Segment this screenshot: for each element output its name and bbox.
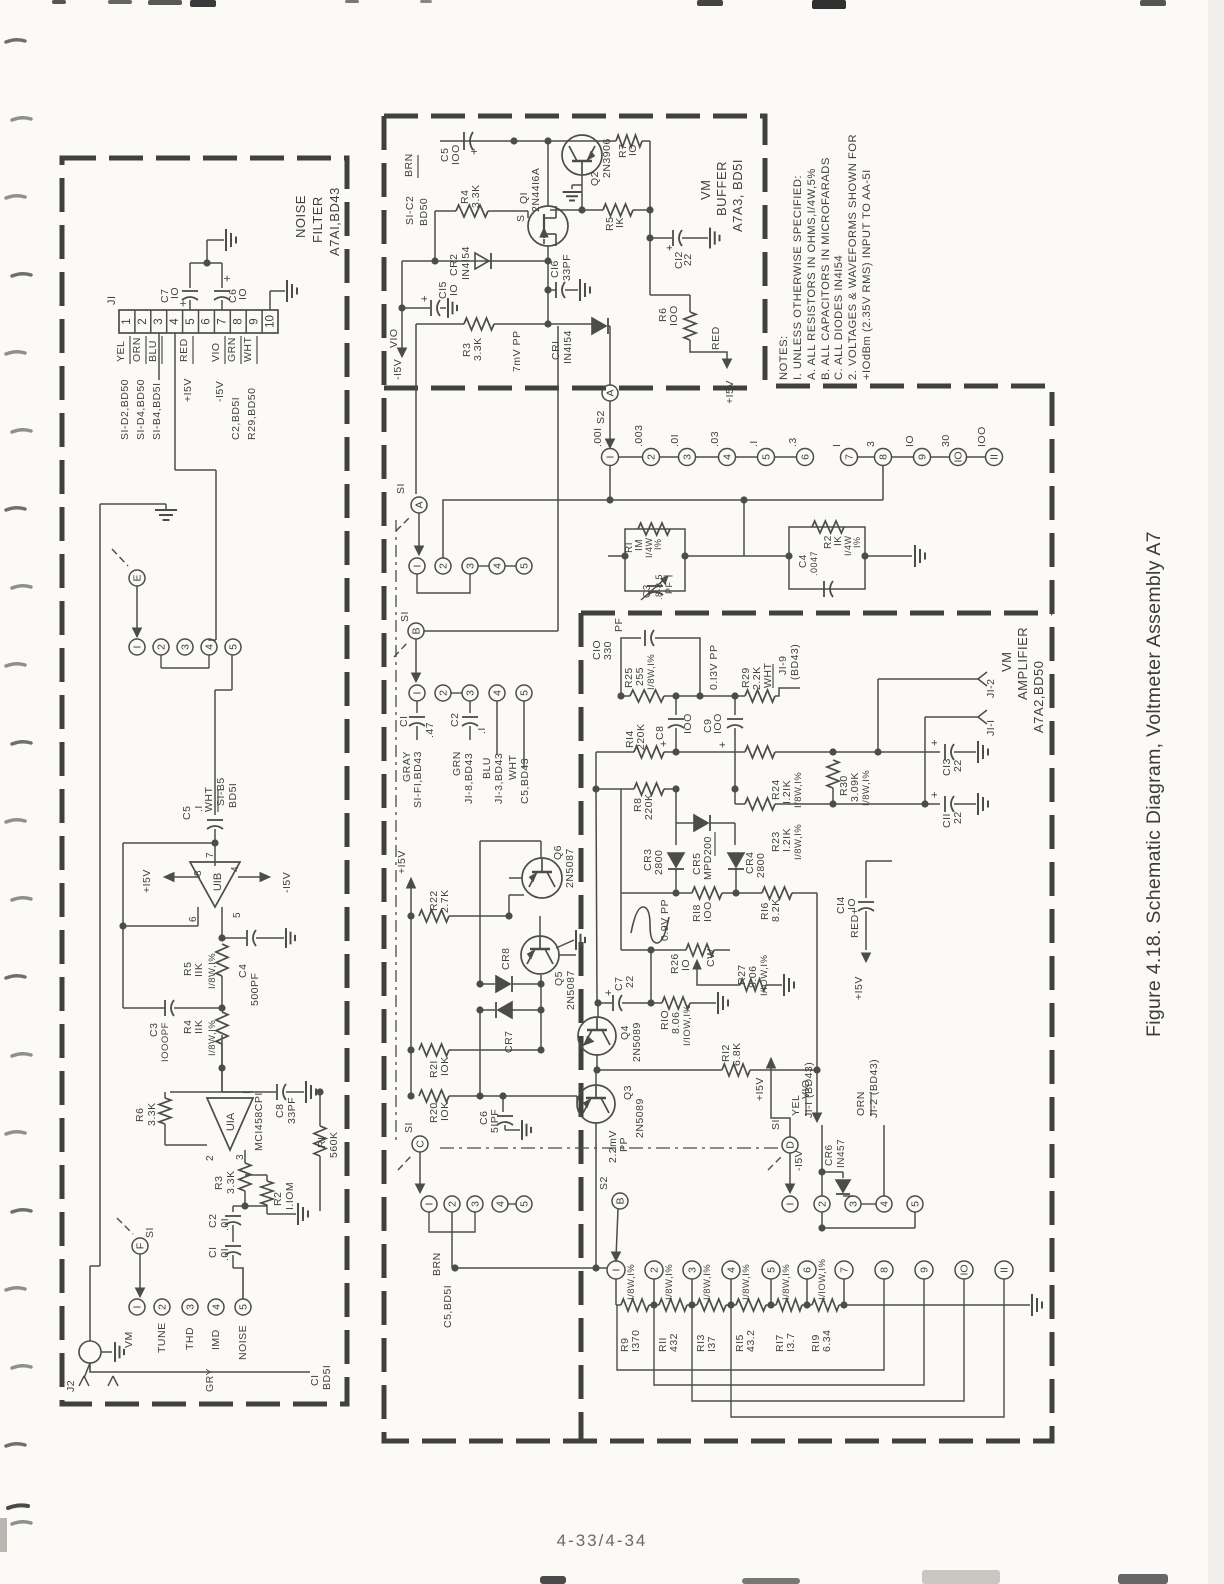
svg-text:IOK: IOK	[439, 1056, 451, 1076]
svg-text:+IOdBm (2.35V RMS) INPUT TO: +IOdBm (2.35V RMS) INPUT TO AA-5I	[861, 169, 873, 380]
svg-text:TUNE: TUNE	[156, 1322, 168, 1353]
svg-text:+: +	[664, 244, 676, 251]
svg-text:8: 8	[879, 1267, 891, 1273]
svg-text:I. UNLESS OTHERWISE SPECIFIED:: I. UNLESS OTHERWISE SPECIFIED:	[792, 175, 804, 380]
svg-text:3: 3	[848, 1201, 860, 1207]
svg-text:+I5V: +I5V	[754, 1077, 766, 1101]
svg-text:0.I3V PP: 0.I3V PP	[708, 645, 720, 690]
svg-text:8: 8	[193, 870, 204, 876]
svg-text:4: 4	[169, 318, 181, 325]
svg-text:2: 2	[157, 1304, 169, 1310]
svg-text:I: I	[132, 1306, 144, 1309]
svg-text:22: 22	[952, 811, 964, 824]
svg-text:I/8W,I%: I/8W,I%	[664, 1264, 675, 1300]
svg-text:AMPLIFIER: AMPLIFIER	[1015, 627, 1030, 700]
svg-text:F: F	[135, 1243, 147, 1249]
svg-text:IO: IO	[904, 435, 916, 447]
svg-text:5: 5	[519, 563, 531, 569]
svg-text:JI-I (BD43): JI-I (BD43)	[803, 1062, 815, 1118]
svg-text:I/IOW,I%: I/IOW,I%	[682, 1004, 693, 1046]
svg-text:C. ALL DIODES IN4I54: C. ALL DIODES IN4I54	[833, 255, 845, 380]
svg-text:500PF: 500PF	[249, 973, 261, 1006]
svg-text:IN4I54: IN4I54	[460, 246, 472, 280]
svg-text:I: I	[412, 692, 424, 695]
svg-text:JI-8,BD43: JI-8,BD43	[463, 753, 475, 804]
svg-text:+: +	[419, 295, 431, 302]
svg-text:THD: THD	[184, 1327, 196, 1350]
svg-text:I/8W,I%: I/8W,I%	[861, 770, 872, 806]
svg-text:6: 6	[800, 454, 812, 460]
svg-text:IIK: IIK	[193, 963, 205, 977]
svg-text:2N5087: 2N5087	[564, 848, 576, 888]
svg-text:B: B	[411, 627, 423, 634]
svg-text:WHT: WHT	[203, 787, 215, 812]
svg-text:4: 4	[492, 690, 504, 696]
svg-text:CI: CI	[309, 1375, 321, 1387]
svg-text:C3: C3	[148, 1023, 160, 1037]
svg-text:3: 3	[682, 454, 694, 460]
svg-text:6: 6	[802, 1267, 814, 1273]
svg-text:5: 5	[519, 1201, 531, 1207]
svg-text:UIB: UIB	[212, 873, 224, 891]
svg-text:+: +	[176, 299, 190, 307]
svg-text:.I: .I	[748, 440, 760, 447]
svg-text:RED+: RED+	[849, 908, 861, 938]
svg-text:0.9V PP: 0.9V PP	[659, 899, 671, 941]
svg-text:ORN: ORN	[855, 1091, 867, 1116]
svg-text:9: 9	[248, 318, 260, 324]
svg-text:IIK: IIK	[193, 1020, 205, 1034]
svg-text:5: 5	[910, 1201, 922, 1207]
svg-text:JI-2: JI-2	[985, 678, 997, 698]
svg-text:I3.7: I3.7	[785, 1332, 797, 1352]
svg-text:.8-8.5: .8-8.5	[654, 574, 664, 600]
svg-text:2: 2	[438, 563, 450, 569]
svg-text:I/8W,I%: I/8W,I%	[702, 1264, 713, 1300]
svg-text:+I5V: +I5V	[724, 380, 736, 404]
svg-text:1: 1	[121, 318, 133, 324]
svg-text:-I5V: -I5V	[281, 872, 293, 893]
svg-text:BUFFER: BUFFER	[714, 161, 729, 216]
svg-text:2: 2	[137, 318, 149, 324]
svg-text:FILTER: FILTER	[310, 196, 325, 243]
svg-text:A: A	[605, 389, 617, 396]
svg-text:J2: J2	[65, 1380, 77, 1392]
svg-text:560K: 560K	[328, 1131, 340, 1158]
svg-text:I/8W,I%: I/8W,I%	[741, 1264, 752, 1300]
svg-text:I/8W,I%: I/8W,I%	[793, 772, 804, 808]
svg-text:+: +	[467, 147, 481, 155]
svg-text:SI: SI	[399, 611, 411, 622]
svg-text:NOTES:: NOTES:	[778, 335, 790, 380]
svg-text:+: +	[929, 739, 941, 746]
svg-text:I: I	[785, 1203, 797, 1206]
svg-text:IMD: IMD	[210, 1329, 222, 1350]
svg-text:Q5: Q5	[553, 971, 565, 986]
svg-text:SI: SI	[144, 1227, 156, 1238]
svg-text:VIO: VIO	[388, 328, 400, 348]
svg-text:A7AI,BD43: A7AI,BD43	[327, 187, 342, 256]
svg-text:C4: C4	[237, 964, 249, 978]
svg-text:I/8W,I%: I/8W,I%	[207, 1020, 218, 1056]
svg-text:2N3906: 2N3906	[601, 138, 613, 178]
svg-text:I%: I%	[852, 536, 862, 548]
svg-text:I370: I370	[630, 1330, 642, 1352]
svg-text:SI: SI	[403, 1122, 415, 1133]
svg-text:MPD200: MPD200	[702, 836, 714, 880]
svg-text:II: II	[989, 454, 1001, 460]
svg-text:Q3: Q3	[622, 1085, 634, 1100]
svg-text:I/IOW,I%: I/IOW,I%	[817, 1258, 828, 1300]
svg-text:6: 6	[201, 318, 213, 324]
svg-text:4: 4	[204, 644, 216, 650]
svg-text:WHT: WHT	[242, 337, 254, 362]
svg-text:Figure 4.18. Schematic Diagra: Figure 4.18. Schematic Diagram, Voltmete…	[1143, 531, 1165, 1037]
svg-text:CI6: CI6	[549, 260, 561, 278]
svg-text:2N44I6A: 2N44I6A	[530, 168, 542, 212]
svg-text:5: 5	[761, 454, 773, 460]
svg-text:.0I: .0I	[219, 1248, 231, 1261]
svg-text:VM: VM	[698, 180, 713, 201]
svg-text:IO: IO	[448, 284, 460, 296]
svg-text:4: 4	[492, 563, 504, 569]
svg-text:IOO: IOO	[976, 426, 988, 447]
svg-text:IO: IO	[237, 288, 249, 300]
svg-text:I37: I37	[706, 1336, 718, 1352]
svg-text:BRN: BRN	[431, 1252, 443, 1276]
svg-text:R6: R6	[134, 1108, 146, 1122]
svg-text:C3: C3	[642, 584, 653, 598]
svg-text:IO: IO	[680, 959, 692, 971]
svg-text:IOO: IOO	[702, 901, 714, 922]
svg-text:SI: SI	[770, 1119, 782, 1130]
svg-text:A. ALL RESISTORS IN OHMS,I/: A. ALL RESISTORS IN OHMS,I/4W,5%	[806, 168, 818, 380]
svg-text:CRI: CRI	[550, 340, 562, 360]
svg-text:IOOOPF: IOOOPF	[160, 1022, 171, 1062]
svg-text:10: 10	[264, 315, 276, 328]
svg-text:+: +	[220, 274, 234, 282]
svg-text:WHT: WHT	[507, 755, 519, 780]
svg-text:330: 330	[602, 641, 614, 660]
svg-text:3.3K: 3.3K	[225, 1170, 237, 1194]
svg-text:RED: RED	[710, 326, 722, 350]
svg-text:3: 3	[687, 1267, 699, 1273]
svg-text:3: 3	[185, 1304, 197, 1310]
svg-text:22: 22	[952, 759, 964, 772]
svg-text:SI-C2: SI-C2	[404, 196, 416, 225]
svg-text:3.3K: 3.3K	[472, 337, 484, 361]
svg-text:SI-FI,BD43: SI-FI,BD43	[412, 751, 424, 808]
svg-text:Q4: Q4	[619, 1025, 631, 1040]
svg-text:RED: RED	[178, 338, 190, 362]
svg-text:I: I	[132, 646, 144, 649]
svg-text:C: C	[415, 1140, 427, 1148]
svg-text:5IPF: 5IPF	[489, 1109, 501, 1133]
svg-text:I.2IK: I.2IK	[781, 780, 793, 804]
svg-text:JI-3,BD43: JI-3,BD43	[493, 753, 505, 804]
svg-text:I.2IK: I.2IK	[781, 828, 793, 852]
svg-text:BD5I: BD5I	[321, 1365, 333, 1390]
svg-text:JI: JI	[106, 295, 118, 305]
svg-text:BLU: BLU	[481, 757, 493, 779]
svg-text:GRN: GRN	[451, 751, 463, 776]
svg-text:4: 4	[722, 454, 734, 460]
svg-text:YEL: YEL	[115, 341, 127, 362]
svg-text:2: 2	[438, 690, 450, 696]
svg-text:33PF: 33PF	[561, 254, 573, 281]
svg-text:C8: C8	[654, 726, 666, 740]
svg-text:JI-2 (BD43): JI-2 (BD43)	[868, 1059, 880, 1118]
svg-text:Q6: Q6	[552, 845, 564, 860]
svg-text:4: 4	[726, 1267, 738, 1273]
svg-text:IOO: IOO	[712, 713, 724, 734]
svg-text:GRY: GRY	[204, 1368, 216, 1392]
svg-text:I: I	[605, 456, 617, 459]
svg-text:R29,BD50: R29,BD50	[246, 388, 258, 440]
svg-text:PP: PP	[618, 1137, 630, 1152]
svg-text:4: 4	[879, 1201, 891, 1207]
svg-text:VIO: VIO	[210, 342, 222, 362]
svg-text:7: 7	[839, 1267, 851, 1273]
svg-text:VM: VM	[999, 652, 1014, 673]
svg-text:E: E	[132, 574, 144, 581]
svg-text:IN457: IN457	[836, 1139, 847, 1168]
svg-text:IOO: IOO	[668, 305, 680, 326]
svg-text:6.34: 6.34	[821, 1330, 833, 1352]
svg-text:22: 22	[624, 975, 636, 988]
svg-text:9: 9	[919, 1267, 931, 1273]
svg-text:2800: 2800	[755, 853, 767, 878]
svg-text:7: 7	[205, 852, 216, 858]
svg-text:.03: .03	[709, 431, 721, 447]
svg-text:-I5V: -I5V	[392, 359, 404, 380]
svg-text:C5: C5	[181, 806, 193, 820]
svg-text:(BD43): (BD43)	[789, 644, 801, 680]
svg-text:3: 3	[465, 690, 477, 696]
svg-text:Q2: Q2	[589, 171, 601, 186]
svg-text:R3: R3	[213, 1176, 225, 1190]
svg-text:2800: 2800	[653, 850, 665, 875]
svg-text:I/8W,I%: I/8W,I%	[646, 654, 657, 690]
svg-text:B. ALL CAPACITORS IN MICROF: B. ALL CAPACITORS IN MICROFARADS	[820, 157, 832, 380]
svg-text:IOO: IOO	[450, 144, 462, 165]
svg-text:S2: S2	[595, 410, 607, 424]
svg-text:I/8W,I%: I/8W,I%	[793, 824, 804, 860]
svg-text:C8: C8	[274, 1104, 286, 1118]
svg-text:SI-B4,BD5I: SI-B4,BD5I	[151, 382, 163, 440]
svg-text:C5,BD5I: C5,BD5I	[442, 1285, 454, 1328]
svg-text:+I5V: +I5V	[396, 850, 408, 874]
svg-text:I%: I%	[653, 538, 663, 550]
svg-text:+: +	[929, 791, 941, 798]
svg-text:3.3K: 3.3K	[146, 1102, 158, 1126]
svg-text:ORN: ORN	[131, 337, 143, 362]
svg-text:II: II	[999, 1267, 1011, 1273]
svg-text:3: 3	[470, 1201, 482, 1207]
svg-text:6.8K: 6.8K	[731, 1042, 743, 1066]
svg-text:.I: .I	[476, 727, 488, 734]
svg-text:QI: QI	[518, 192, 530, 204]
svg-text:IO: IO	[953, 451, 965, 462]
svg-text:S2: S2	[598, 1176, 610, 1190]
svg-text:+: +	[717, 741, 729, 748]
svg-text:+I5V: +I5V	[182, 378, 194, 402]
svg-text:.0I: .0I	[669, 434, 681, 447]
svg-text:5: 5	[238, 1304, 250, 1310]
svg-text:VM: VM	[123, 1331, 135, 1348]
svg-text:C2: C2	[207, 1214, 219, 1228]
svg-text:I: I	[412, 565, 424, 568]
svg-text:IOO: IOO	[682, 713, 694, 734]
svg-text:+I5V: +I5V	[141, 869, 153, 893]
svg-text:+I5V: +I5V	[853, 976, 865, 1000]
svg-text:IO: IO	[169, 287, 181, 299]
svg-text:.47: .47	[424, 722, 436, 738]
svg-text:8.2K: 8.2K	[770, 898, 782, 922]
svg-text:I/8W,I%: I/8W,I%	[626, 1264, 637, 1300]
svg-text:3.09K: 3.09K	[849, 772, 861, 802]
svg-text:I/8W,I%: I/8W,I%	[207, 953, 218, 989]
svg-text:2: 2	[156, 644, 168, 650]
svg-text:SI: SI	[395, 483, 407, 494]
svg-text:2. VOLTAGES & WAVEFORMS SHO: 2. VOLTAGES & WAVEFORMS SHOWN FOR	[847, 134, 859, 380]
svg-text:NOISE: NOISE	[293, 195, 308, 238]
svg-text:43.2: 43.2	[745, 1330, 757, 1352]
svg-text:220K: 220K	[643, 793, 655, 820]
svg-text:RI: RI	[316, 1137, 328, 1149]
svg-text:CR8: CR8	[500, 947, 512, 970]
svg-text:S: S	[515, 214, 527, 222]
svg-text:JI-I: JI-I	[985, 719, 997, 736]
svg-text:33PF: 33PF	[286, 1097, 298, 1124]
svg-text:7mV PP: 7mV PP	[511, 330, 523, 372]
svg-text:BRN: BRN	[403, 153, 415, 177]
svg-text:I: I	[424, 1203, 436, 1206]
svg-text:5: 5	[228, 644, 240, 650]
svg-text:BD50: BD50	[418, 198, 430, 226]
svg-text:CI: CI	[398, 716, 410, 728]
svg-text:9: 9	[917, 454, 929, 460]
svg-text:CR2: CR2	[448, 253, 460, 276]
svg-text:.3: .3	[787, 437, 799, 447]
svg-text:22: 22	[682, 253, 694, 266]
svg-text:CR6: CR6	[824, 1144, 835, 1166]
svg-text:8: 8	[878, 454, 890, 460]
svg-text:C4: C4	[798, 554, 809, 568]
svg-text:WHT: WHT	[762, 663, 774, 688]
svg-text:IK: IK	[614, 217, 626, 228]
svg-text:7: 7	[217, 318, 229, 324]
svg-text:4: 4	[230, 866, 241, 872]
svg-text:2N5087: 2N5087	[565, 970, 577, 1010]
svg-text:.00I: .00I	[592, 427, 604, 447]
svg-text:A7A3, BD5I: A7A3, BD5I	[730, 159, 745, 232]
svg-text:IO: IO	[627, 144, 639, 156]
svg-text:SI-B5: SI-B5	[215, 777, 227, 806]
svg-text:B: B	[615, 1197, 627, 1204]
svg-text:IOK: IOK	[439, 1101, 451, 1121]
svg-text:UIA: UIA	[225, 1112, 237, 1131]
svg-text:4: 4	[211, 1304, 223, 1310]
svg-text:CI: CI	[207, 1247, 219, 1259]
svg-text:2: 2	[817, 1201, 829, 1207]
svg-text:2: 2	[646, 454, 658, 460]
svg-text:D: D	[785, 1141, 797, 1149]
svg-text:I.IOM: I.IOM	[284, 1182, 296, 1210]
svg-text:A: A	[414, 501, 426, 508]
svg-text:-I5V: -I5V	[214, 381, 226, 402]
svg-text:2: 2	[447, 1201, 459, 1207]
svg-text:PF: PF	[613, 618, 625, 632]
svg-text:2N5089: 2N5089	[631, 1022, 643, 1062]
svg-text:432: 432	[668, 1333, 680, 1352]
svg-text:GRN: GRN	[226, 337, 238, 362]
svg-text:I: I	[611, 1269, 623, 1272]
svg-text:3: 3	[153, 318, 165, 324]
svg-text:5: 5	[185, 318, 197, 324]
svg-text:8: 8	[233, 318, 245, 324]
svg-text:255: 255	[634, 667, 646, 686]
svg-text:BD5I: BD5I	[227, 783, 239, 808]
svg-text:3: 3	[180, 644, 192, 650]
svg-text:-I5V: -I5V	[793, 1150, 805, 1171]
svg-text:.003: .003	[633, 425, 645, 447]
svg-text:5: 5	[232, 912, 243, 918]
svg-text:8.06: 8.06	[670, 1012, 682, 1034]
svg-text:5: 5	[519, 690, 531, 696]
svg-text:R2: R2	[272, 1192, 284, 1206]
svg-text:220K: 220K	[635, 723, 647, 750]
svg-text:.0I: .0I	[219, 1218, 231, 1231]
svg-text:C5,BD43: C5,BD43	[519, 758, 531, 804]
svg-text:PF: PF	[664, 581, 674, 594]
svg-text:5: 5	[766, 1267, 778, 1273]
svg-text:I: I	[831, 444, 843, 447]
svg-text:IN4I54: IN4I54	[562, 330, 574, 364]
svg-text:JI-9: JI-9	[777, 655, 789, 675]
svg-text:MCI458CPI: MCI458CPI	[253, 1092, 265, 1151]
svg-text:3.3K: 3.3K	[470, 184, 482, 208]
svg-text:CW: CW	[705, 949, 717, 968]
svg-text:C2,BD5I: C2,BD5I	[230, 397, 242, 440]
svg-text:+: +	[658, 740, 670, 747]
svg-text:C2: C2	[449, 713, 461, 727]
svg-text:SI-D4,BD50: SI-D4,BD50	[135, 379, 147, 440]
svg-text:.0047: .0047	[809, 551, 819, 576]
svg-text:NOISE: NOISE	[237, 1325, 249, 1360]
svg-text:BLU: BLU	[147, 340, 159, 362]
svg-text:4: 4	[495, 1201, 507, 1207]
svg-text:2: 2	[649, 1267, 661, 1273]
svg-text:3: 3	[865, 441, 877, 447]
svg-text:30: 30	[940, 434, 952, 447]
svg-text:YEL: YEL	[790, 1095, 802, 1116]
svg-text:4-33/4-34: 4-33/4-34	[557, 1531, 648, 1550]
svg-text:I/8W,I%: I/8W,I%	[781, 1264, 792, 1300]
svg-text:7: 7	[844, 454, 856, 460]
svg-text:IO: IO	[959, 1264, 971, 1275]
svg-text:SI-D2,BD50: SI-D2,BD50	[119, 379, 131, 440]
svg-text:2: 2	[205, 1155, 216, 1161]
svg-text:2.7K: 2.7K	[439, 889, 451, 913]
svg-text:2N5089: 2N5089	[634, 1098, 646, 1138]
svg-text:3: 3	[465, 563, 477, 569]
svg-text:A7A2,BD50: A7A2,BD50	[1031, 661, 1046, 733]
